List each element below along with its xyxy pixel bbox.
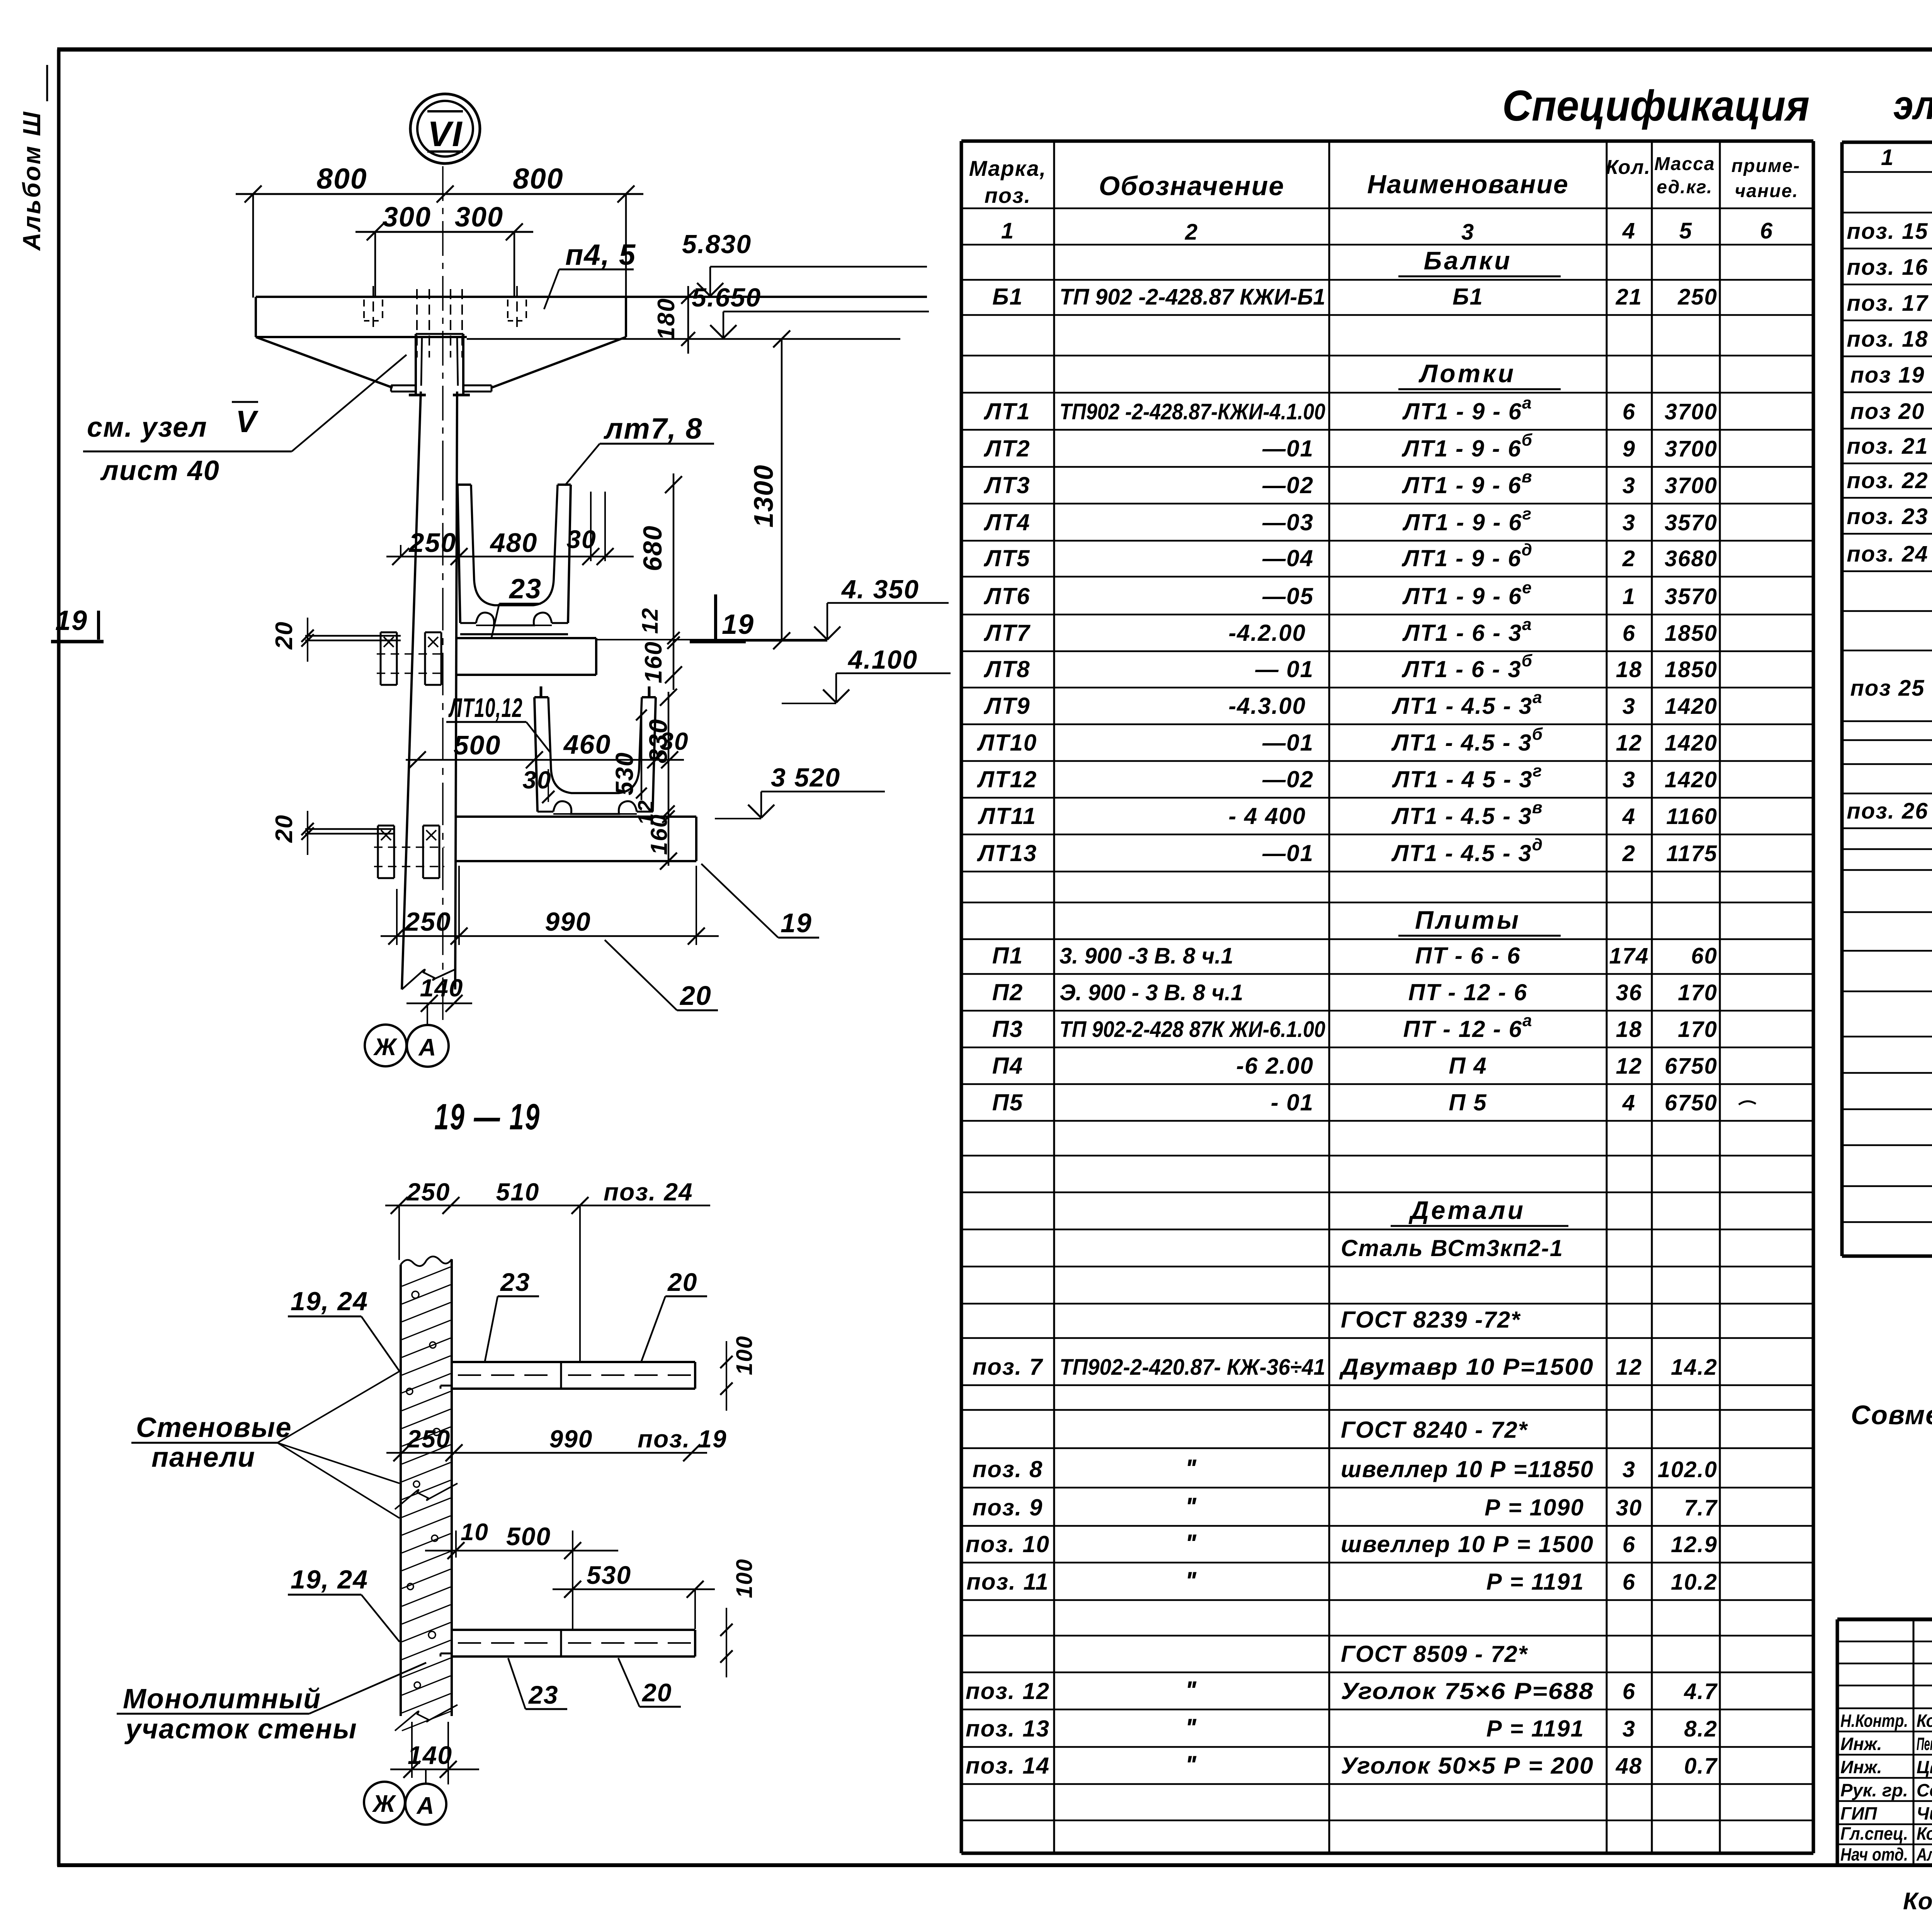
svg-text:18: 18 xyxy=(1616,1017,1643,1042)
svg-text:250: 250 xyxy=(1677,284,1718,310)
svg-text:6: 6 xyxy=(1760,218,1773,243)
svg-text:ПТ - 6 - 6: ПТ - 6 - 6 xyxy=(1415,943,1520,969)
axis circles Ж А (upper drawing) xyxy=(365,1004,449,1067)
svg-text:3: 3 xyxy=(1622,767,1636,792)
svg-text:12: 12 xyxy=(638,607,663,634)
svg-text:300: 300 xyxy=(383,202,431,233)
right specification table grid xyxy=(1842,142,1932,1256)
svg-text:Козловичер: Козловичер xyxy=(1917,1823,1932,1844)
svg-text:поз. 8: поз. 8 xyxy=(973,1456,1043,1482)
svg-text:510: 510 xyxy=(496,1178,540,1206)
svg-text:ʺ: ʺ xyxy=(1185,1529,1198,1558)
svg-text:1160: 1160 xyxy=(1666,804,1718,829)
svg-text:100: 100 xyxy=(732,1335,757,1375)
dim 250 990 bottom of top drawing xyxy=(381,866,719,945)
svg-text:ʺ: ʺ xyxy=(1185,1676,1198,1704)
vertical dims 830 530 12 160 lower xyxy=(611,641,677,881)
svg-text:поз. 24: поз. 24 xyxy=(604,1178,693,1206)
bolted plates upper left of column xyxy=(377,632,446,685)
svg-text:6: 6 xyxy=(1622,1570,1636,1595)
section title 19 — 19 xyxy=(434,1096,541,1137)
svg-text:1420: 1420 xyxy=(1665,694,1718,719)
haunch trapezoid under slab xyxy=(256,337,626,388)
svg-text:Петропавловская: Петропавловская xyxy=(1917,1734,1932,1754)
svg-text:ЛТ6: ЛТ6 xyxy=(983,583,1030,609)
svg-text:Р = 1090: Р = 1090 xyxy=(1485,1495,1584,1520)
svg-text:ЛТ12: ЛТ12 xyxy=(977,766,1037,792)
svg-text:VI: VI xyxy=(428,114,463,154)
svg-text:4.7: 4.7 xyxy=(1684,1679,1718,1704)
svg-text:3: 3 xyxy=(1622,1716,1636,1742)
right table header numbers xyxy=(1881,145,1932,170)
svg-text:100: 100 xyxy=(732,1558,757,1598)
svg-text:ТП902-2-420.87- КЖ-36÷41: ТП902-2-420.87- КЖ-36÷41 xyxy=(1060,1355,1325,1380)
svg-text:5: 5 xyxy=(1679,218,1692,243)
svg-text:2: 2 xyxy=(1622,546,1636,571)
svg-text:Спецификация: Спецификация xyxy=(1502,82,1810,130)
svg-text:4: 4 xyxy=(1622,1090,1636,1115)
svg-text:Нач отд.: Нач отд. xyxy=(1840,1844,1908,1864)
svg-text:лт7, 8: лт7, 8 xyxy=(603,412,703,445)
svg-text:ЛТ2: ЛТ2 xyxy=(983,436,1030,461)
svg-text:6: 6 xyxy=(1622,1532,1636,1557)
svg-text:Семенова: Семенова xyxy=(1917,1780,1932,1800)
floor slab right at level 4.350 xyxy=(456,638,827,675)
svg-text:3570: 3570 xyxy=(1665,510,1718,535)
svg-text:140: 140 xyxy=(408,1741,452,1769)
svg-text:Копировал: Доценко Дя-: Копировал: Доценко Дя- xyxy=(1903,1888,1932,1915)
svg-text:ʺ: ʺ xyxy=(1185,1454,1198,1483)
svg-text:ʺ: ʺ xyxy=(1185,1492,1198,1521)
svg-text:6: 6 xyxy=(1622,399,1636,424)
svg-text:лист 40: лист 40 xyxy=(100,455,220,486)
right table поз.25 row (рифл. ст.) xyxy=(1850,655,1932,720)
svg-text:19: 19 xyxy=(55,605,88,636)
svg-text:ЛТ5: ЛТ5 xyxy=(983,545,1030,571)
svg-text:20: 20 xyxy=(271,814,298,843)
svg-text:170: 170 xyxy=(1678,980,1718,1005)
svg-text:160: 160 xyxy=(646,814,672,855)
svg-text:20: 20 xyxy=(679,981,712,1011)
svg-text:3: 3 xyxy=(1461,220,1475,245)
svg-text:500: 500 xyxy=(454,730,501,760)
second 19,24 label xyxy=(288,1565,400,1642)
bearing plates under haunch xyxy=(391,385,492,392)
svg-text:20: 20 xyxy=(641,1678,672,1707)
svg-text:21: 21 xyxy=(1616,284,1643,310)
svg-text:поз 20: поз 20 xyxy=(1850,399,1925,424)
svg-text:1175: 1175 xyxy=(1666,841,1718,866)
title block outer xyxy=(1837,1619,1932,1865)
svg-text:30: 30 xyxy=(522,766,551,794)
svg-text:3700: 3700 xyxy=(1665,473,1718,498)
svg-text:14.2: 14.2 xyxy=(1671,1355,1718,1380)
channel ЛТ7,8 cross-section xyxy=(457,485,571,634)
svg-text:2: 2 xyxy=(1622,841,1636,866)
svg-text:ЛТ1: ЛТ1 xyxy=(983,398,1030,424)
main title: Специфигация элементов xyxy=(1502,82,1932,130)
svg-text:1: 1 xyxy=(1622,584,1636,609)
floor slab at level 3.520 xyxy=(456,817,696,861)
svg-text:Монолитный: Монолитный xyxy=(123,1684,321,1714)
svg-text:ЛТ7: ЛТ7 xyxy=(983,620,1031,646)
svg-text:поз. 15: поз. 15 xyxy=(1847,219,1928,244)
svg-text:поз. 9: поз. 9 xyxy=(973,1495,1043,1520)
svg-text:-6 2.00: -6 2.00 xyxy=(1236,1053,1314,1079)
svg-text:П5: П5 xyxy=(992,1090,1024,1115)
column centerline xyxy=(442,166,444,1024)
svg-text:1300: 1300 xyxy=(748,464,779,528)
svg-text:Инж.: Инж. xyxy=(1840,1734,1882,1754)
svg-text:2: 2 xyxy=(1185,220,1198,245)
svg-text:7.7: 7.7 xyxy=(1684,1495,1718,1520)
callout 19 bottom right xyxy=(701,864,819,938)
svg-text:800: 800 xyxy=(316,162,367,195)
middle table row texts xyxy=(966,246,1718,1779)
svg-text:30: 30 xyxy=(1616,1495,1643,1520)
dim 100 lower right rotated xyxy=(720,1558,757,1677)
svg-text:ТП 902-2-428 87К ЖИ-6.1.00: ТП 902-2-428 87К ЖИ-6.1.00 xyxy=(1060,1017,1325,1042)
svg-text:—01: —01 xyxy=(1262,436,1314,461)
svg-text:Н.Контр.: Н.Контр. xyxy=(1840,1711,1908,1731)
dim 10 500 (lower slab) xyxy=(425,1519,618,1631)
svg-text:60: 60 xyxy=(1691,943,1718,969)
svg-text:—03: —03 xyxy=(1262,509,1314,535)
svg-text:приме-: приме- xyxy=(1731,156,1800,176)
elevation 3.520 xyxy=(715,763,885,819)
svg-text:поз. 16: поз. 16 xyxy=(1847,255,1928,280)
svg-text:170: 170 xyxy=(1678,1017,1718,1042)
dim 140 bottom wall xyxy=(390,1722,479,1784)
svg-text:Цветкова: Цветкова xyxy=(1917,1757,1932,1777)
elevation 4.100 xyxy=(782,645,951,703)
label П4,5 with leader xyxy=(544,238,636,309)
svg-text:V: V xyxy=(236,404,259,439)
svg-text:поз. 22: поз. 22 xyxy=(1847,468,1928,493)
svg-text:160: 160 xyxy=(640,641,667,683)
svg-text:18: 18 xyxy=(1616,657,1643,682)
dim 20 lower left xyxy=(271,811,314,855)
svg-text:поз. 24: поз. 24 xyxy=(1847,541,1928,567)
column break symbol xyxy=(402,969,455,989)
svg-text:—02: —02 xyxy=(1262,766,1314,792)
svg-text:поз 25: поз 25 xyxy=(1850,676,1925,701)
svg-text:поз. 18: поз. 18 xyxy=(1847,327,1928,352)
svg-text:250: 250 xyxy=(408,528,457,558)
svg-text:ЛТ9: ЛТ9 xyxy=(983,693,1030,719)
middle table header xyxy=(969,154,1800,245)
svg-text:5.830: 5.830 xyxy=(682,230,752,259)
svg-text:20: 20 xyxy=(271,621,298,650)
wall panels vertical section xyxy=(401,1256,452,1731)
svg-text:ʺ: ʺ xyxy=(1185,1750,1198,1779)
svg-text:поз. 7: поз. 7 xyxy=(973,1354,1043,1380)
floor slab left strip at 4.350 xyxy=(305,636,401,640)
svg-text:Балки: Балки xyxy=(1423,246,1512,275)
svg-text:3: 3 xyxy=(1622,694,1636,719)
labels 23 20 upper slabs xyxy=(485,1268,707,1361)
svg-text:Наименование: Наименование xyxy=(1367,170,1569,199)
svg-text:300: 300 xyxy=(455,202,503,233)
svg-text:3680: 3680 xyxy=(1665,546,1718,571)
svg-text:поз. 21: поз. 21 xyxy=(1847,434,1928,459)
svg-text:П2: П2 xyxy=(992,979,1024,1005)
svg-text:1420: 1420 xyxy=(1665,730,1718,756)
dim 250 480 30 (channel ЛТ7,8) xyxy=(386,492,634,565)
signature rows text xyxy=(1840,1709,1932,1864)
elevation 5.650 xyxy=(692,283,929,338)
svg-text:19, 24: 19, 24 xyxy=(291,1287,368,1316)
svg-text:6: 6 xyxy=(1622,621,1636,646)
svg-text:ЛТ10,12: ЛТ10,12 xyxy=(448,693,523,723)
axis circles Ж А (lower drawing) xyxy=(364,1769,446,1825)
svg-text:ТП902 -2-428.87-КЖИ-4.1.00: ТП902 -2-428.87-КЖИ-4.1.00 xyxy=(1060,399,1325,424)
svg-text:250: 250 xyxy=(406,1178,451,1206)
dimension 300+300 xyxy=(355,202,533,298)
text Монолитный участок стены xyxy=(117,1663,426,1745)
svg-text:6750: 6750 xyxy=(1665,1054,1718,1079)
svg-text:480: 480 xyxy=(490,528,538,558)
svg-text:250: 250 xyxy=(407,1425,451,1453)
svg-text:4.100: 4.100 xyxy=(847,645,918,674)
node marker circle VI xyxy=(410,94,480,163)
svg-text:А: А xyxy=(416,1793,435,1819)
svg-text:990: 990 xyxy=(549,1425,593,1453)
svg-text:Плиты: Плиты xyxy=(1415,906,1521,934)
svg-text:Альтшуллер: Альтшуллер xyxy=(1916,1844,1932,1864)
slab П4,5 outline xyxy=(256,297,927,339)
svg-text:ГИП: ГИП xyxy=(1840,1803,1877,1823)
svg-text:3. 900 -3 В. 8 ч.1: 3. 900 -3 В. 8 ч.1 xyxy=(1060,943,1233,969)
svg-text:Уголок 75×6 Р=688: Уголок 75×6 Р=688 xyxy=(1341,1678,1594,1704)
label 23 with leader (upper) xyxy=(492,574,542,638)
svg-text:поз. 14: поз. 14 xyxy=(966,1753,1050,1779)
anchor sockets dashed on slab xyxy=(364,286,526,358)
svg-text:ЛТ13: ЛТ13 xyxy=(977,840,1037,866)
svg-text:3: 3 xyxy=(1622,510,1636,535)
dim 20 upper left xyxy=(271,618,314,662)
svg-text:А: А xyxy=(418,1034,437,1061)
svg-text:ГОСТ 8240 - 72*: ГОСТ 8240 - 72* xyxy=(1341,1417,1528,1443)
svg-text:460: 460 xyxy=(563,729,611,759)
svg-text:Масса: Масса xyxy=(1654,154,1715,174)
svg-text:0.7: 0.7 xyxy=(1684,1754,1718,1779)
bottom margin annotations xyxy=(1903,1887,1932,1915)
svg-text:4. 350: 4. 350 xyxy=(841,575,919,604)
svg-text:180: 180 xyxy=(653,298,680,340)
svg-text:элементов: элементов xyxy=(1893,82,1932,128)
svg-text:3700: 3700 xyxy=(1665,436,1718,461)
svg-text:П 4: П 4 xyxy=(1449,1053,1487,1079)
svg-text:поз. 19: поз. 19 xyxy=(638,1425,727,1453)
svg-text:3570: 3570 xyxy=(1665,584,1718,609)
svg-text:Двутавр 10 Р=1500: Двутавр 10 Р=1500 xyxy=(1339,1354,1594,1380)
svg-text:Б1: Б1 xyxy=(992,284,1023,310)
svg-text:102.0: 102.0 xyxy=(1658,1457,1718,1482)
elevation 4.350 xyxy=(746,575,949,641)
svg-text:Уголок 50×5 Р = 200: Уголок 50×5 Р = 200 xyxy=(1341,1753,1594,1779)
svg-text:Гл.спец.: Гл.спец. xyxy=(1840,1823,1908,1844)
svg-text:Э. 900 - 3 В. 8 ч.1: Э. 900 - 3 В. 8 ч.1 xyxy=(1060,980,1243,1005)
svg-text:19: 19 xyxy=(722,609,754,640)
svg-text:ГОСТ 8509 - 72*: ГОСТ 8509 - 72* xyxy=(1341,1641,1528,1667)
lower floor slab in wall section xyxy=(440,1630,695,1657)
svg-text:поз. 12: поз. 12 xyxy=(966,1678,1050,1704)
svg-text:ГОСТ 8239 -72*: ГОСТ 8239 -72* xyxy=(1341,1307,1521,1333)
svg-text:-4.3.00: -4.3.00 xyxy=(1228,693,1306,719)
svg-text:ʺ: ʺ xyxy=(1185,1566,1198,1595)
floor slab left strip lower xyxy=(305,829,395,834)
album III rotated label left margin xyxy=(18,65,47,251)
callout см. узел V лист 40 xyxy=(83,355,406,486)
svg-text:Р = 1191: Р = 1191 xyxy=(1486,1716,1584,1742)
wall mid break marks xyxy=(395,1483,457,1523)
svg-text:530: 530 xyxy=(611,752,638,795)
svg-text:Сталь ВСт3кп2-1: Сталь ВСт3кп2-1 xyxy=(1341,1235,1563,1261)
svg-text:10.2: 10.2 xyxy=(1671,1570,1718,1595)
svg-text:Козловичер: Козловичер xyxy=(1917,1711,1932,1731)
svg-text:поз. 11: поз. 11 xyxy=(966,1569,1049,1595)
svg-text:12: 12 xyxy=(1616,1054,1643,1079)
svg-text:1: 1 xyxy=(1001,218,1014,243)
svg-text:800: 800 xyxy=(513,162,563,195)
svg-text:- 4 400: - 4 400 xyxy=(1228,803,1306,829)
dim 530 (lower slab) xyxy=(553,1561,715,1629)
svg-text:1850: 1850 xyxy=(1665,657,1718,682)
svg-text:П4: П4 xyxy=(992,1053,1024,1079)
svg-text:10: 10 xyxy=(461,1519,489,1546)
svg-text:36: 36 xyxy=(1616,980,1643,1005)
svg-text:поз. 13: поз. 13 xyxy=(966,1716,1050,1742)
svg-text:ʺ: ʺ xyxy=(1185,1713,1198,1742)
svg-text:—04: —04 xyxy=(1262,545,1314,571)
svg-text:19, 24: 19, 24 xyxy=(291,1565,368,1594)
svg-text:Альбом Ш: Альбом Ш xyxy=(18,110,46,251)
svg-text:174: 174 xyxy=(1609,943,1649,969)
svg-text:— 01: — 01 xyxy=(1255,656,1314,682)
label ЛТ7,8 with leader xyxy=(565,412,714,485)
svg-text:5.650: 5.650 xyxy=(692,283,761,312)
svg-text:см. узел: см. узел xyxy=(87,412,207,443)
svg-text:12.9: 12.9 xyxy=(1671,1532,1718,1557)
svg-text:680: 680 xyxy=(638,525,667,571)
svg-text:ед.кг.: ед.кг. xyxy=(1657,177,1713,197)
bracket connection узел V xyxy=(409,334,470,395)
svg-text:8.2: 8.2 xyxy=(1684,1716,1718,1742)
svg-text:Р = 1191: Р = 1191 xyxy=(1486,1569,1584,1595)
svg-text:швеллер 10 Р =11850: швеллер 10 Р =11850 xyxy=(1341,1456,1594,1482)
svg-text:ТП 902 -2-428.87 КЖИ-Б1: ТП 902 -2-428.87 КЖИ-Б1 xyxy=(1060,284,1325,310)
svg-text:12: 12 xyxy=(1616,730,1643,756)
svg-text:990: 990 xyxy=(545,907,591,936)
svg-text:Чирков: Чирков xyxy=(1917,1803,1932,1823)
svg-text:панели: панели xyxy=(151,1442,255,1473)
svg-text:23: 23 xyxy=(528,1680,558,1709)
svg-text:4: 4 xyxy=(1622,804,1636,829)
svg-text:ЛТ8: ЛТ8 xyxy=(983,656,1030,682)
labels 23 20 lower slabs xyxy=(508,1658,681,1709)
svg-text:23: 23 xyxy=(500,1268,530,1296)
svg-text:П 5: П 5 xyxy=(1449,1090,1487,1115)
note Совместно с данным xyxy=(1851,1400,1932,1430)
svg-text:—02: —02 xyxy=(1262,472,1314,498)
svg-text:500: 500 xyxy=(506,1522,551,1551)
svg-text:19 — 19: 19 — 19 xyxy=(434,1096,541,1137)
dimension 800+800 xyxy=(236,162,643,298)
svg-text:—01: —01 xyxy=(1262,840,1314,866)
svg-text:30: 30 xyxy=(566,525,596,553)
svg-text:1850: 1850 xyxy=(1665,621,1718,646)
svg-text:П3: П3 xyxy=(992,1016,1024,1042)
vertical dim 680 12 160 xyxy=(571,473,682,690)
title block signature grid xyxy=(1837,1619,1932,1865)
bolted plates lower left of column xyxy=(374,826,444,878)
elevation 5.830 xyxy=(682,230,927,296)
svg-text:—01: —01 xyxy=(1262,730,1314,756)
svg-text:6750: 6750 xyxy=(1665,1090,1718,1115)
svg-text:п4, 5: п4, 5 xyxy=(565,238,636,271)
svg-text:- 01: - 01 xyxy=(1271,1090,1314,1115)
svg-text:П1: П1 xyxy=(992,943,1024,969)
section mark 19 right xyxy=(690,594,754,642)
svg-text:19: 19 xyxy=(781,908,812,938)
svg-text:—05: —05 xyxy=(1262,583,1314,609)
wall bottom break marks xyxy=(395,1705,457,1731)
svg-text:швеллер 10 Р = 1500: швеллер 10 Р = 1500 xyxy=(1341,1531,1594,1557)
dim 100 upper right rotated xyxy=(720,1335,757,1411)
svg-text:3: 3 xyxy=(1622,1457,1636,1482)
svg-text:250: 250 xyxy=(404,907,451,936)
svg-text:ЛТ10: ЛТ10 xyxy=(977,730,1037,756)
svg-text:Б1: Б1 xyxy=(1452,284,1483,310)
dim 250 990 поз.19 (mid) xyxy=(386,1425,727,1461)
svg-text:1420: 1420 xyxy=(1665,767,1718,792)
tapered column xyxy=(402,392,457,989)
svg-text:Совместно с данным см. л.: Совместно с данным см. л. л. КЖ- 36÷40. xyxy=(1851,1400,1932,1430)
callout 20 bottom xyxy=(605,940,718,1011)
dim 140 column bottom xyxy=(406,974,472,1012)
svg-text:поз.: поз. xyxy=(985,183,1031,208)
svg-text:1: 1 xyxy=(1881,145,1894,170)
svg-text:140: 140 xyxy=(420,974,464,1002)
svg-text:Кол.: Кол. xyxy=(1606,156,1651,179)
upper floor slab in wall section xyxy=(440,1362,695,1389)
svg-text:ЛТ3: ЛТ3 xyxy=(983,472,1030,498)
svg-text:9: 9 xyxy=(1622,436,1636,461)
svg-text:Марка,: Марка, xyxy=(969,156,1046,180)
right table row texts xyxy=(1847,182,1932,824)
dim 250 510 поз.24 (wall top) xyxy=(385,1178,710,1362)
svg-text:поз. 10: поз. 10 xyxy=(966,1531,1050,1557)
svg-text:ЛТ4: ЛТ4 xyxy=(983,509,1030,535)
section mark 19 left xyxy=(51,605,104,642)
svg-text:3700: 3700 xyxy=(1665,399,1718,424)
svg-text:4: 4 xyxy=(1622,218,1636,243)
svg-text:поз. 17: поз. 17 xyxy=(1847,291,1929,316)
svg-text:Обозначение: Обозначение xyxy=(1099,171,1285,201)
svg-text:48: 48 xyxy=(1616,1754,1643,1779)
svg-text:6: 6 xyxy=(1622,1679,1636,1704)
svg-text:Детали: Детали xyxy=(1408,1196,1526,1224)
svg-text:530: 530 xyxy=(587,1561,631,1589)
svg-text:3: 3 xyxy=(1622,473,1636,498)
vertical dim 180 xyxy=(653,286,695,354)
middle specification table grid xyxy=(961,141,1813,1853)
stray tilde mark col6 row П4 xyxy=(1739,1101,1756,1105)
text Стеновые панели with leaders xyxy=(131,1371,400,1518)
svg-text:поз 19: поз 19 xyxy=(1850,363,1925,388)
svg-text:Инж.: Инж. xyxy=(1840,1757,1882,1777)
